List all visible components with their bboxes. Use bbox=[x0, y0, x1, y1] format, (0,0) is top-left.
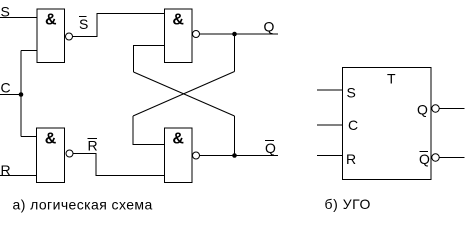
svg-text:S: S bbox=[347, 85, 356, 101]
node Q junction bbox=[232, 32, 237, 37]
nand gate DD2.1 body bbox=[165, 9, 193, 63]
wire feedback Q-bar to DD2.1 pin 2 bbox=[134, 46, 165, 73]
wire feedback Q-bar to DD2.1 pin 2 vertical from junction bbox=[234, 116, 236, 156]
wire feedback Q diagonal bbox=[133, 72, 235, 117]
wire C vertical branch bbox=[20, 51, 22, 137]
svg-text:Q: Q bbox=[417, 102, 428, 118]
svg-text:Q: Q bbox=[419, 151, 430, 167]
nand gate DD1.1 body bbox=[37, 9, 65, 63]
wire C input to junction bbox=[0, 94, 21, 96]
node Q-bar label overline bbox=[265, 140, 274, 142]
nand gate DD1.1 output bubble bbox=[66, 33, 73, 40]
svg-text:R: R bbox=[346, 151, 356, 167]
nand gate DD2.2 body bbox=[165, 128, 193, 183]
node C junction bbox=[19, 92, 24, 97]
svg-text:C: C bbox=[1, 80, 11, 96]
flip-flop symbol U1 pin Q-bar label overline bbox=[420, 151, 429, 153]
node R-bar label overline bbox=[88, 138, 98, 140]
wire S-bar from DD1.1 bubble to gate DD2.1 pin 1 bbox=[73, 14, 165, 37]
wire C to gate DD1.1 pin 2 bbox=[21, 50, 37, 52]
svg-text:T: T bbox=[387, 71, 396, 87]
flip-flop symbol U1 pin C stub bbox=[317, 124, 343, 126]
node Q-bar junction bbox=[232, 153, 237, 158]
flip-flop symbol U1 body bbox=[343, 68, 432, 180]
flip-flop symbol U1 pin Q bubble bbox=[432, 105, 439, 112]
svg-text:а) логическая схема: а) логическая схема bbox=[13, 197, 153, 213]
nand gate DD1.2 output bubble bbox=[66, 150, 73, 157]
node S-bar label overline bbox=[79, 16, 87, 18]
wire R input to gate DD1.2 bbox=[0, 175, 37, 177]
nand gate DD2.2 output bubble bbox=[193, 152, 200, 159]
svg-text:б) УГО: б) УГО bbox=[325, 196, 371, 212]
flip-flop symbol U1 pin Q-bar stub bbox=[439, 157, 464, 159]
flip-flop symbol U1 pin Q-bar bubble bbox=[432, 154, 439, 161]
svg-text:&: & bbox=[45, 12, 57, 29]
wire feedback Q-bar diagonal bbox=[134, 72, 235, 116]
wire Q output from DD2.1 bubble bbox=[200, 33, 279, 35]
svg-text:R: R bbox=[88, 138, 98, 154]
wire feedback Q to DD2.2 pin 1 vertical from junction bbox=[234, 34, 236, 72]
wire feedback Q to DD2.2 pin 1 bbox=[133, 116, 165, 145]
svg-text:&: & bbox=[45, 131, 57, 148]
svg-text:&: & bbox=[172, 12, 184, 29]
wire C to gate DD1.2 pin 1 bbox=[21, 136, 37, 138]
nand gate DD1.2 body bbox=[37, 128, 65, 183]
wire S input to gate DD1.1 bbox=[0, 17, 37, 19]
flip-flop symbol U1 pin R stub bbox=[317, 155, 343, 157]
flip-flop symbol U1 pin Q stub bbox=[439, 108, 464, 110]
svg-text:S: S bbox=[79, 16, 88, 32]
svg-text:&: & bbox=[172, 131, 184, 148]
svg-text:C: C bbox=[348, 117, 358, 133]
svg-text:Q: Q bbox=[265, 140, 276, 156]
nand gate DD2.1 output bubble bbox=[193, 31, 200, 38]
flip-flop symbol U1 pin S stub bbox=[317, 89, 343, 91]
wire R-bar from DD1.2 bubble to gate DD2.2 pin 2 bbox=[73, 154, 165, 176]
svg-text:Q: Q bbox=[264, 19, 275, 35]
wire Q-bar output from DD2.2 bubble bbox=[200, 155, 279, 157]
